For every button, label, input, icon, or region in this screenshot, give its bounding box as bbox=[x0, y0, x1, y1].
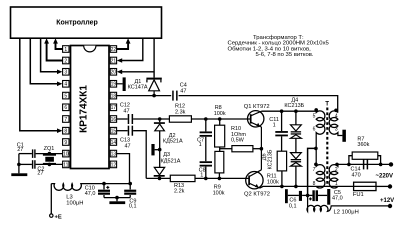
wire controller to pin 3 bbox=[41, 38, 57, 72]
resistor R11 100k bbox=[277, 151, 286, 171]
node C10 on rail bbox=[102, 182, 106, 186]
svg-text:1: 1 bbox=[200, 172, 203, 178]
svg-text:R8: R8 bbox=[215, 105, 222, 111]
svg-text:19: 19 bbox=[111, 82, 117, 88]
wire crystal caps to ground bbox=[19, 153, 32, 155]
svg-text:13: 13 bbox=[111, 152, 117, 158]
svg-text:6: 6 bbox=[64, 105, 67, 111]
wire +E up to rail bbox=[50, 184, 52, 214]
transistor Q2 KT972 bbox=[246, 172, 263, 189]
svg-text:1: 1 bbox=[335, 181, 338, 187]
svg-text:ZQ1: ZQ1 bbox=[44, 146, 55, 152]
wire Q1 emitter to Q2 collector bbox=[260, 127, 262, 170]
svg-text:470: 470 bbox=[352, 173, 361, 179]
svg-text:С6: С6 bbox=[289, 198, 296, 204]
svg-text:11: 11 bbox=[63, 162, 68, 168]
wire center tap left jog bbox=[308, 148, 317, 195]
svg-text:9: 9 bbox=[64, 140, 67, 146]
svg-text:47: 47 bbox=[180, 89, 186, 95]
svg-text:17: 17 bbox=[111, 105, 117, 111]
wire C13 down to bus B bbox=[133, 131, 146, 179]
svg-text:+Е: +Е bbox=[55, 215, 62, 221]
capacitor C2 27 bbox=[32, 160, 33, 169]
svg-text:2: 2 bbox=[64, 58, 67, 64]
terminal ~220V bbox=[389, 162, 393, 166]
svg-text:7: 7 bbox=[64, 117, 67, 123]
diode D2 KD521A bbox=[154, 122, 165, 124]
capacitor C12 47 bbox=[128, 114, 130, 124]
svg-text:1: 1 bbox=[199, 142, 202, 148]
resistor R13 2.2k bbox=[170, 175, 195, 181]
svg-text:47: 47 bbox=[123, 108, 129, 114]
zener D4 KS213B bbox=[294, 109, 298, 113]
wire pin 1 to controller bbox=[56, 43, 63, 49]
wire pin 13 down to supply rail bbox=[117, 154, 130, 184]
svg-text:КС213Б: КС213Б bbox=[268, 149, 274, 169]
wire bus A bbox=[133, 118, 169, 120]
svg-text:21: 21 bbox=[111, 58, 117, 64]
wire controller to pin 8 bbox=[20, 38, 57, 131]
resistor R9 100k bbox=[215, 151, 224, 173]
transformer winding 2-1 bbox=[335, 163, 339, 167]
resistor R10 1Ohm 0.5W bbox=[220, 148, 232, 150]
svg-text:L2 100μН: L2 100μН bbox=[334, 210, 359, 216]
svg-text:Д3: Д3 bbox=[163, 152, 170, 158]
zener D6 KS213B bbox=[291, 153, 302, 159]
svg-text:100k: 100k bbox=[267, 179, 279, 185]
crystal ZQ1 bbox=[48, 152, 52, 156]
wire 220V line bbox=[338, 163, 391, 165]
ground symbol bottom middle bbox=[109, 201, 125, 204]
svg-text:4: 4 bbox=[64, 82, 67, 88]
wire bus B to Q2 base bbox=[146, 177, 249, 179]
svg-text:0,1: 0,1 bbox=[289, 204, 297, 210]
svg-text:КС147А: КС147А bbox=[128, 85, 148, 91]
node mid diodes bbox=[158, 148, 162, 152]
transformer core bbox=[326, 108, 328, 187]
wire bus C collector bbox=[262, 110, 317, 112]
svg-text:18: 18 bbox=[111, 94, 117, 100]
capacitor C10 47.0 electrolytic bbox=[103, 184, 105, 190]
inductor L3 100uH bbox=[51, 184, 130, 191]
svg-text:Q2 КТ972: Q2 КТ972 bbox=[244, 192, 270, 198]
svg-text:КС213Б: КС213Б bbox=[284, 103, 304, 109]
wire Q2 emitter to rail bbox=[260, 186, 354, 188]
crystal circuit: wire pin 10 line bbox=[36, 153, 63, 155]
svg-text:7: 7 bbox=[313, 167, 316, 173]
terminal +12V bottom bbox=[388, 204, 392, 208]
svg-text:1: 1 bbox=[273, 123, 276, 129]
resistor R7 360k bbox=[347, 163, 351, 167]
capacitor C13 47 bbox=[128, 126, 130, 136]
svg-text:27: 27 bbox=[17, 147, 23, 153]
svg-text:~220V: ~220V bbox=[376, 174, 394, 180]
capacitor C14 470 bbox=[363, 159, 365, 169]
ground bar at winding 3 bbox=[342, 130, 346, 142]
svg-text:1: 1 bbox=[64, 47, 67, 53]
svg-text:360k: 360k bbox=[357, 142, 369, 148]
inductor L2 100uH bbox=[307, 195, 390, 211]
wire pin 2 to controller bbox=[47, 43, 63, 61]
svg-text:R9: R9 bbox=[214, 185, 221, 191]
capacitor C6 0.1 bbox=[288, 194, 299, 196]
capacitor C8 1 bbox=[200, 161, 212, 163]
svg-text:47: 47 bbox=[125, 144, 131, 150]
capacitor C9 0.1 bbox=[129, 184, 131, 190]
wire controller to pin 21 bbox=[122, 38, 143, 60]
svg-text:Т: Т bbox=[325, 101, 329, 108]
svg-text:47,0: 47,0 bbox=[332, 195, 343, 201]
ground symbol bottom left bbox=[11, 173, 27, 176]
svg-text:47,0: 47,0 bbox=[85, 191, 96, 197]
svg-text:15: 15 bbox=[111, 129, 117, 135]
ground bar left of C6 bbox=[285, 189, 288, 203]
svg-text:20: 20 bbox=[111, 70, 117, 76]
svg-text:16: 16 bbox=[111, 117, 117, 123]
wire pin 15 line bbox=[117, 130, 128, 132]
transformer winding 7-8 bbox=[314, 163, 318, 167]
capacitor C4 47 bbox=[172, 91, 174, 101]
capacitor C5 47.0 electrolytic bbox=[308, 194, 313, 196]
ground bar at pin 19 bbox=[117, 83, 123, 85]
svg-text:3: 3 bbox=[64, 70, 67, 76]
svg-text:КД521А: КД521А bbox=[161, 159, 181, 165]
capacitor C1 27 bbox=[32, 149, 33, 158]
wire bus A to Q1 base bbox=[191, 118, 250, 120]
svg-text:12: 12 bbox=[111, 162, 117, 168]
zener D1 KS147A bbox=[146, 78, 161, 80]
wire pin 22 to controller bbox=[117, 43, 129, 49]
svg-text:0,1: 0,1 bbox=[129, 204, 137, 210]
svg-text:2.3k: 2.3k bbox=[175, 110, 186, 116]
terminal +E bbox=[50, 214, 53, 217]
svg-text:4: 4 bbox=[335, 114, 338, 120]
capacitor C11 1 bbox=[280, 109, 284, 113]
controller box bbox=[11, 7, 162, 38]
node center tap C5 C6 bbox=[306, 194, 310, 198]
wire pin 11 line bbox=[36, 163, 63, 165]
svg-text:14: 14 bbox=[111, 140, 117, 146]
svg-text:8: 8 bbox=[64, 129, 67, 135]
svg-text:22: 22 bbox=[111, 47, 117, 53]
capacitor C7 1 bbox=[204, 117, 208, 121]
transformer winding 5-6 bbox=[314, 108, 318, 112]
svg-text:10: 10 bbox=[63, 152, 69, 158]
wire C4 to transformer winding 4 bbox=[179, 96, 338, 113]
wire pin 16 line bbox=[117, 118, 128, 120]
svg-text:КР174ХК1: КР174ХК1 bbox=[78, 85, 89, 133]
svg-text:Q1 КТ972: Q1 КТ972 bbox=[244, 104, 270, 110]
svg-text:100k: 100k bbox=[214, 111, 226, 117]
svg-text:3: 3 bbox=[335, 127, 338, 133]
svg-text:КД521А: КД521А bbox=[163, 138, 183, 144]
fuse FU1 bbox=[354, 182, 376, 190]
IC pin boxes left 1-11 bbox=[63, 46, 69, 53]
wire pin 18 line bbox=[117, 95, 172, 97]
ground bar mid bbox=[151, 144, 154, 155]
terminal +12V top bbox=[388, 184, 392, 188]
svg-text:Контроллер: Контроллер bbox=[56, 19, 98, 26]
svg-text:100μН: 100μН bbox=[66, 200, 83, 206]
wire controller to pin 4 bbox=[30, 38, 57, 84]
resistor R8 100k bbox=[218, 117, 222, 121]
svg-text:5: 5 bbox=[64, 94, 67, 100]
svg-text:С13: С13 bbox=[120, 137, 130, 143]
svg-text:+12V: +12V bbox=[380, 198, 394, 204]
IC U1 KR174XK1 body bbox=[71, 46, 110, 169]
svg-text:8: 8 bbox=[313, 181, 316, 187]
node D1 anode on pin18 line bbox=[152, 94, 156, 98]
node D2 bbox=[158, 117, 162, 121]
node winding 6-7 tap bbox=[314, 147, 318, 151]
svg-text:2: 2 bbox=[335, 167, 338, 173]
node C9 on rail bbox=[128, 182, 132, 186]
svg-text:27: 27 bbox=[37, 171, 43, 177]
svg-text:2.2k: 2.2k bbox=[174, 188, 185, 194]
ground bar right of C5 bbox=[327, 189, 330, 205]
IC pin boxes right 22-12 bbox=[110, 46, 116, 53]
svg-text:FU1: FU1 bbox=[353, 192, 364, 198]
resistor R12 2.3k bbox=[169, 116, 191, 122]
svg-text:5-6, 7-8 по 35 витков.: 5-6, 7-8 по 35 витков. bbox=[256, 52, 314, 58]
diode D3 KD521A bbox=[159, 150, 161, 168]
wire ground bus under C9 C10 bbox=[104, 197, 130, 199]
svg-text:5: 5 bbox=[313, 114, 316, 120]
svg-text:100k: 100k bbox=[213, 191, 225, 197]
node D3 on bus B bbox=[158, 177, 162, 181]
svg-text:0,5W: 0,5W bbox=[231, 137, 245, 143]
transformer winding 4-3 bbox=[334, 109, 338, 113]
transistor Q1 KT972 bbox=[248, 111, 264, 127]
wire controller to pin 20 and D1 cathode bbox=[153, 38, 155, 77]
svg-text:6: 6 bbox=[313, 127, 316, 133]
